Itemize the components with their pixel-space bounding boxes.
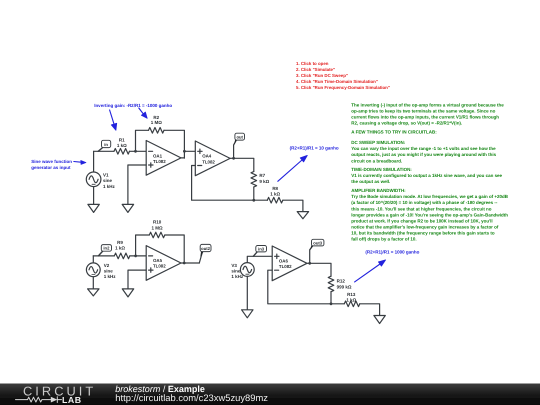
wire: OA5 output stub to out2: [184, 262, 199, 264]
svg-text:DC SWEEP SIMULATION:: DC SWEEP SIMULATION:: [351, 140, 405, 145]
svg-text:TL082: TL082: [153, 159, 166, 164]
resistor R13: [344, 292, 359, 307]
svg-text:10, but its bandwidth (the fre: 10, but its bandwidth (the frequency ran…: [351, 231, 495, 236]
voltage source V3: [231, 263, 254, 280]
svg-text:circuit on a breadboard.: circuit on a breadboard.: [351, 158, 402, 163]
annotation: blue note 1000 ganho: [365, 250, 419, 255]
wire: input row 2: [93, 255, 114, 257]
ground (V2): [88, 289, 99, 296]
svg-text:OA6: OA6: [279, 259, 289, 264]
svg-text:TL082: TL082: [153, 264, 166, 269]
resistor R1: [114, 138, 130, 155]
svg-text:AMPLIFIER BANDWIDTH:: AMPLIFIER BANDWIDTH:: [351, 188, 406, 193]
logo schematic line: wire resistor diode LAB: [16, 397, 51, 402]
node flag out: [234, 133, 245, 158]
annotation arrow to R2: [139, 108, 147, 118]
wire: feedback 2 left vertical: [136, 235, 150, 256]
node: OA1 output junction: [183, 150, 186, 153]
ground (R13): [374, 316, 385, 324]
svg-text:You can vary the input over th: You can vary the input over the range -1…: [351, 146, 496, 151]
svg-text:R8: R8: [272, 186, 278, 191]
svg-text:OA1: OA1: [153, 153, 163, 158]
node junction R9/R10: [134, 255, 137, 258]
wire: junction to R8: [254, 199, 267, 201]
annotation: blue note inverting gain: [94, 103, 172, 108]
wire: input row from V1 to R1: [94, 150, 114, 152]
svg-text:http://circuitlab.com/c23xw5zu: http://circuitlab.com/c23xw5zuy89mz: [115, 392, 268, 403]
resistor R8: [267, 186, 282, 203]
svg-text:sine: sine: [103, 178, 113, 183]
svg-text:1 kΩ: 1 kΩ: [270, 192, 280, 197]
annotation arrow to V1: [74, 160, 86, 164]
annotation: red numbered instructions: [296, 61, 390, 90]
svg-text:OA4: OA4: [202, 154, 212, 159]
svg-text:TL082: TL082: [202, 159, 215, 164]
node flag out3: [310, 239, 324, 263]
svg-text:1 kΩ: 1 kΩ: [117, 143, 127, 148]
svg-text:A FEW THINGS TO TRY IN CIRCUIT: A FEW THINGS TO TRY IN CIRCUITLAB:: [351, 130, 437, 135]
svg-text:V1: V1: [103, 173, 109, 178]
resistor R9: [114, 240, 130, 259]
node: R7/R8 junction: [252, 199, 255, 202]
annotation arrow 10 ganho: [278, 155, 308, 181]
svg-text:op-amp tries to keep its two t: op-amp tries to keep its two terminals a…: [351, 109, 495, 114]
wire: OA4 output row: [230, 158, 254, 171]
svg-text:R1: R1: [119, 138, 125, 143]
wire: OA1 output stub: [181, 157, 184, 159]
svg-text:out3: out3: [313, 240, 323, 245]
svg-text:current flows into the op-amp: current flows into the op-amp inputs, th…: [351, 115, 499, 120]
ground (V3): [242, 310, 253, 318]
node: out flag junction: [232, 157, 235, 160]
svg-text:V3: V3: [231, 263, 237, 268]
svg-text:1 kHz: 1 kHz: [104, 274, 117, 279]
ground (OA1 plus input): [122, 204, 133, 212]
wire: V3 bottom lead: [246, 276, 248, 309]
svg-text:2. Click "Simulate": 2. Click "Simulate": [296, 67, 335, 72]
svg-text:LAB: LAB: [62, 395, 82, 405]
wire: OA1 output to OA4 plus input: [184, 150, 195, 152]
annotation: blue note sine wave input: [31, 159, 72, 170]
svg-text:1 kHz: 1 kHz: [231, 274, 244, 279]
svg-text:1 MΩ: 1 MΩ: [151, 120, 163, 125]
svg-text:3. Click "Run DC Sweep": 3. Click "Run DC Sweep": [296, 73, 348, 78]
wire: V2 bottom lead: [92, 277, 94, 289]
svg-text:out: out: [236, 134, 243, 139]
svg-text:R9: R9: [117, 240, 123, 245]
node junction at R1/R2: [134, 150, 137, 153]
svg-text:1. Click to open: 1. Click to open: [296, 61, 329, 66]
wire: R1 to OA1 minus input: [130, 150, 147, 152]
op-amp OA4: [195, 141, 230, 176]
wire: V2 top lead: [92, 256, 94, 263]
svg-text:R7: R7: [259, 173, 265, 178]
ground (OA5 plus input): [122, 289, 133, 297]
wire: OA5 plus to ground: [128, 270, 146, 289]
wire: R13 to ground: [360, 304, 380, 316]
resistor R7: [251, 172, 270, 188]
wire: V1 bottom lead: [93, 187, 95, 205]
svg-text:TIME-DOMAIN SIMULATION:: TIME-DOMAIN SIMULATION:: [351, 167, 412, 172]
svg-text:the output as well.: the output as well.: [351, 179, 390, 184]
voltage source V2: [86, 263, 116, 279]
op-amp OA5: [146, 246, 181, 281]
svg-text:V1 is currently configured to: V1 is currently configured to output a 1…: [351, 173, 502, 178]
wire: OA6 output row: [307, 263, 331, 276]
svg-text:Inverting gain: -R2/R1 = -1000: Inverting gain: -R2/R1 = -1000 ganho: [94, 103, 172, 108]
svg-text:1 kHz: 1 kHz: [103, 184, 116, 189]
svg-text:sine: sine: [104, 269, 114, 274]
svg-text:1 kΩ: 1 kΩ: [346, 297, 356, 302]
wire: V3 top lead and input row 3: [247, 256, 272, 262]
op-amp OA6: [272, 246, 307, 281]
wire: OA4 minus feedback to bottom row: [192, 166, 254, 201]
svg-text:longer provides a gain of -10!: longer provides a gain of -10! You're se…: [351, 212, 508, 217]
svg-text:(R2+R1)/R1 = 1000 ganho: (R2+R1)/R1 = 1000 ganho: [365, 250, 419, 255]
wire: feedback 2 right vertical: [165, 235, 184, 263]
svg-text:R12: R12: [337, 279, 346, 284]
svg-text:this means -10. You'll see tha: this means -10. You'll see that at highe…: [351, 206, 491, 211]
annotation arrow 1000 ganho: [355, 260, 386, 282]
wire: R9 to OA5 minus: [130, 255, 146, 257]
ground (V1): [88, 204, 99, 212]
svg-text:OA5: OA5: [153, 258, 163, 263]
node flag in3: [253, 246, 266, 257]
svg-text:(a factor of 10^(20/20) = 10 i: (a factor of 10^(20/20) = 10 in voltage)…: [351, 200, 498, 205]
annotation: green description text: [351, 102, 508, 241]
svg-text:in: in: [104, 142, 108, 147]
op-amp OA1: [146, 141, 181, 176]
node: out3 junction: [308, 262, 311, 265]
svg-text:(R2+R1)/R1 = 10 ganho: (R2+R1)/R1 = 10 ganho: [290, 145, 339, 150]
svg-text:output reacts, just as you mig: output reacts, just as you might if you …: [351, 152, 496, 157]
svg-text:1 kΩ: 1 kΩ: [115, 246, 125, 251]
wire: OA1 plus input to ground: [128, 165, 146, 204]
svg-text:Sine wave function: Sine wave function: [31, 159, 72, 164]
svg-text:Try the Bode simulation mode.: Try the Bode simulation mode. At low fre…: [351, 194, 508, 199]
svg-text:1 MΩ: 1 MΩ: [152, 225, 164, 230]
resistor R10: [149, 220, 165, 238]
svg-text:notice that the amplifier's lo: notice that the amplifier's low-frequenc…: [351, 225, 499, 230]
node: R12/R13 junction: [330, 302, 333, 305]
node: OA5 output junction: [183, 262, 186, 265]
annotation: blue note 10 ganho: [290, 145, 339, 150]
node flag in: [98, 140, 111, 151]
ground (R8): [297, 212, 308, 219]
svg-text:in3: in3: [258, 247, 265, 252]
svg-text:fall off) drops by a factor of: fall off) drops by a factor of 10.: [351, 237, 416, 242]
svg-text:V2: V2: [104, 263, 110, 268]
wire: R12 bottom lead: [330, 292, 332, 304]
svg-text:in2: in2: [103, 246, 110, 251]
wire: junction to R13: [331, 303, 344, 305]
svg-text:5. Click "Run Frequency-Domain: 5. Click "Run Frequency-Domain Simulatio…: [296, 85, 390, 90]
svg-text:out2: out2: [201, 246, 211, 251]
wire: feedback left vertical: [136, 130, 149, 151]
annotation arrow to R1: [110, 110, 117, 130]
svg-text:R2, causing a voltage drop, so: R2, causing a voltage drop, so V(out) = …: [351, 121, 462, 126]
wire: V1 top lead to input row: [93, 151, 95, 172]
resistor R12: [328, 276, 352, 291]
node flag out2: [199, 244, 211, 263]
svg-text:generator as input: generator as input: [31, 165, 71, 170]
svg-text:4. Click "Run Time-Domain Simu: 4. Click "Run Time-Domain Simulation": [296, 79, 378, 84]
resistor R2: [149, 115, 165, 133]
svg-text:product at work. If you change: product at work. If you change R2 to be …: [351, 218, 492, 223]
svg-text:The inverting (-) input of the: The inverting (-) input of the op-amp fo…: [351, 102, 504, 107]
wire: OA6 minus feedback to bottom row 3: [268, 270, 331, 304]
svg-text:CIRCUIT: CIRCUIT: [23, 383, 96, 398]
svg-text:TL082: TL082: [279, 264, 292, 269]
wire: R7 bottom lead: [253, 187, 255, 200]
svg-text:sine: sine: [231, 269, 241, 274]
node flag in2: [98, 245, 111, 256]
wire: R8 to ground: [283, 200, 303, 211]
svg-text:R10: R10: [153, 220, 162, 225]
svg-text:999 kΩ: 999 kΩ: [337, 284, 352, 289]
svg-text:9 kΩ: 9 kΩ: [259, 179, 269, 184]
voltage source V1: [86, 172, 115, 189]
svg-text:R13: R13: [347, 292, 356, 297]
wire: feedback right vertical to OA1 output: [164, 130, 184, 158]
